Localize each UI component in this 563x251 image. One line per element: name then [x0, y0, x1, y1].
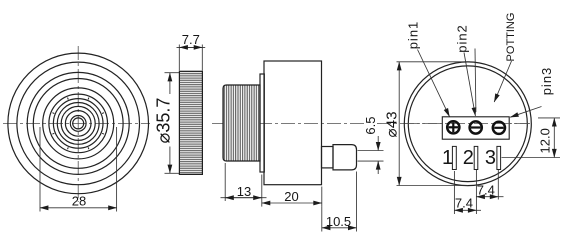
dimension 7.7 line [177, 46, 206, 48]
svg-text:1: 1 [442, 147, 453, 169]
front view ring r61 [17, 62, 140, 185]
dimension 13 extension lines [224, 163, 226, 201]
svg-text:6.5: 6.5 [363, 117, 378, 135]
pin slot 1 [452, 146, 456, 169]
svg-text:2: 2 [463, 147, 474, 169]
svg-text:pin1: pin1 [405, 21, 420, 50]
side view nozzle base [322, 147, 334, 168]
knurled bezel strip [179, 71, 202, 174]
dimension 13 line [221, 197, 267, 199]
dimension 7.4 upper line [477, 196, 499, 198]
svg-text:13: 13 [237, 184, 251, 199]
dimension 7.4 upper extension lines [475, 170, 477, 214]
dimension dia43 extension lines [397, 61, 471, 63]
front view horizontal centerline [3, 122, 150, 124]
side view centerline [212, 122, 366, 124]
dimension dia35.7 ticks [165, 72, 180, 74]
front view outer flange circle [8, 53, 149, 194]
svg-text:7.4: 7.4 [455, 196, 473, 211]
dimension 20 line [262, 202, 322, 204]
dimension dia35.7 line [169, 73, 171, 94]
leader POTTING [494, 61, 511, 102]
front view ring r17 [61, 106, 95, 140]
svg-text:pin2: pin2 [454, 24, 469, 53]
terminal block [442, 117, 509, 139]
svg-text:10.5: 10.5 [326, 214, 351, 229]
dimension 10.5 line [322, 227, 356, 229]
back view inner rim [408, 66, 527, 182]
leader pin1 [418, 50, 450, 117]
dimension 6.5 line and arrows [377, 136, 379, 150]
dimension dia43 line [398, 62, 400, 185]
front view vertical centerline [77, 46, 79, 202]
front view 8 tick marks [52, 98, 104, 150]
dimension 28 extension lines [39, 127, 41, 212]
pin slot 2 [474, 146, 478, 169]
front view ring r8 [70, 116, 86, 132]
front view ring r29 [49, 94, 108, 153]
dimension 20 extension line [321, 187, 323, 207]
front view ring r35 [43, 88, 114, 159]
svg-text:28: 28 [72, 194, 86, 209]
svg-text:POTTING: POTTING [505, 13, 517, 62]
side view nozzle tip [333, 145, 357, 170]
dimension 7.7 extension lines [178, 45, 180, 71]
side view body [264, 61, 322, 185]
dimension 28 line [40, 207, 117, 209]
dimension 12.0 extension lines [538, 117, 560, 119]
svg-text:7.4: 7.4 [477, 182, 495, 197]
svg-text:⌀35.7: ⌀35.7 [153, 98, 173, 144]
front view ring r51 [27, 72, 129, 174]
leader pin3 [510, 107, 541, 118]
dimension 10.5 extension lines [321, 207, 323, 232]
terminal 1 positive [447, 121, 459, 133]
leader pin2 [464, 53, 475, 116]
svg-text:3: 3 [485, 147, 496, 169]
front view ring r25 [53, 99, 103, 149]
pin slot 3 [497, 146, 501, 169]
svg-text:7.7: 7.7 [182, 32, 200, 47]
svg-text:12.0: 12.0 [537, 128, 552, 153]
terminal 3 negative [493, 122, 505, 134]
svg-text:20: 20 [284, 189, 298, 204]
svg-text:⌀43: ⌀43 [383, 111, 400, 137]
back view outer rim [404, 62, 531, 186]
dimension 7.4 lower line [455, 209, 477, 211]
front view center hole [73, 118, 84, 129]
front view ring r13 [65, 111, 91, 137]
side view knurled section [223, 85, 260, 161]
terminal 2 negative [470, 121, 482, 133]
svg-text:pin3: pin3 [539, 67, 554, 96]
front view ring r45 [33, 79, 123, 169]
front view ring r21 [57, 103, 99, 145]
dimension 6.5 extension lines [358, 150, 384, 152]
side view lip flange [260, 74, 264, 172]
dimension 12.0 line [553, 118, 555, 157]
back view centerline over block [405, 122, 530, 124]
dimension 7.4 lower extension line [453, 171, 455, 214]
